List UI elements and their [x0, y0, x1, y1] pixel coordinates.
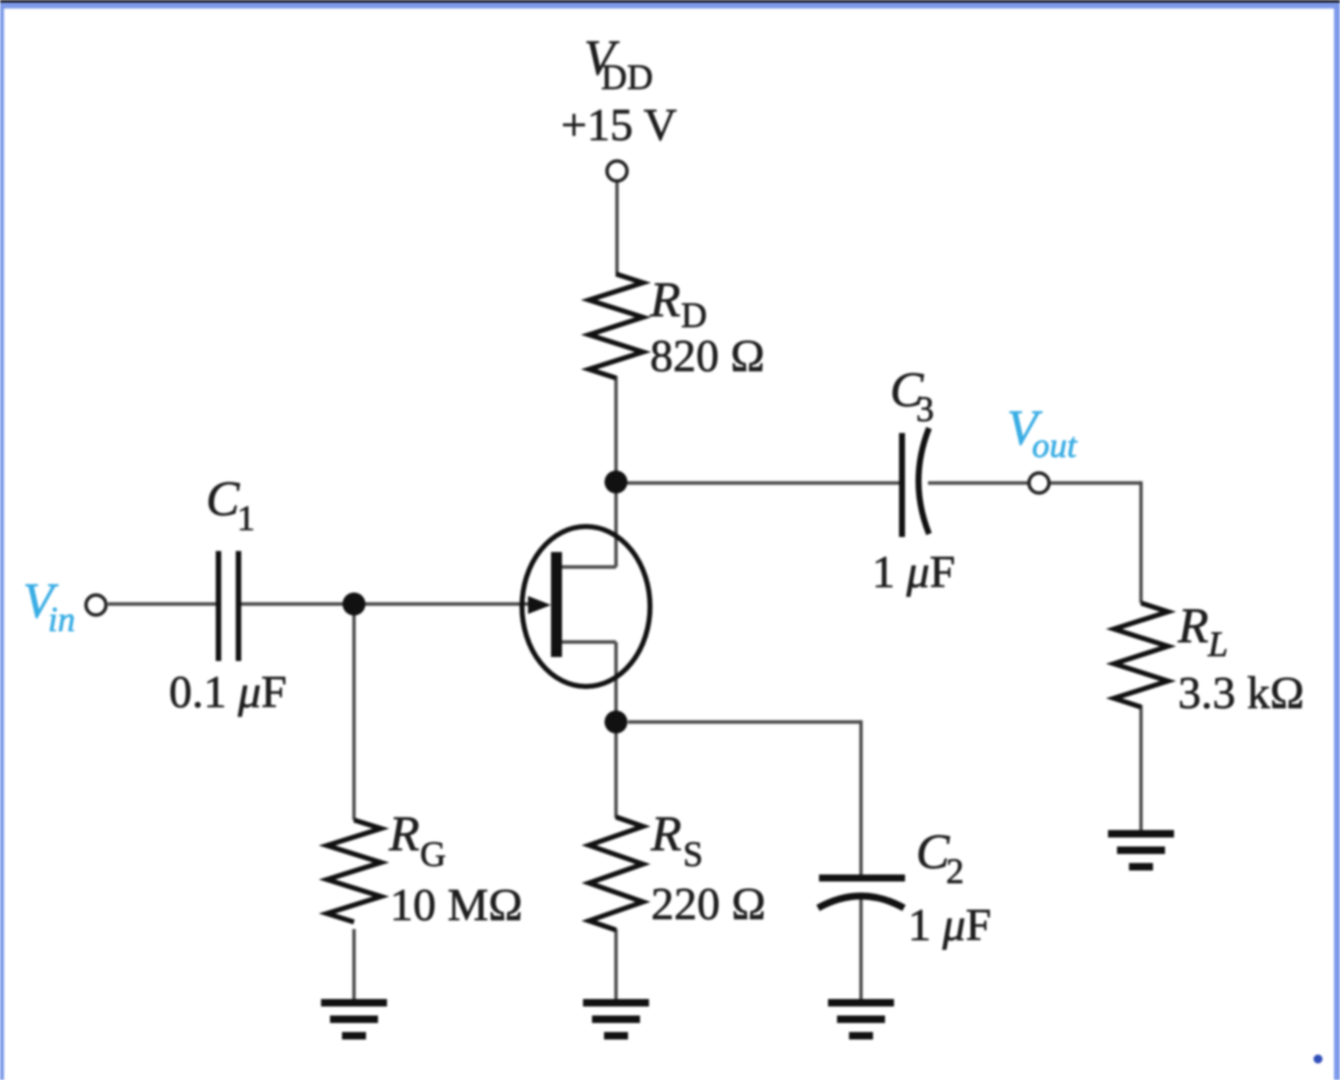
svg-text:10 MΩ: 10 MΩ: [390, 879, 523, 930]
svg-text:DD: DD: [601, 57, 653, 97]
svg-text:C: C: [206, 470, 240, 526]
svg-text:1 μF: 1 μF: [872, 546, 955, 597]
svg-text:R: R: [650, 805, 682, 861]
svg-text:1 μF: 1 μF: [908, 899, 991, 950]
svg-text:L: L: [1207, 624, 1228, 664]
svg-text:820 Ω: 820 Ω: [650, 330, 765, 381]
svg-text:C: C: [916, 823, 950, 879]
svg-text:220 Ω: 220 Ω: [651, 878, 766, 929]
svg-text:S: S: [683, 834, 703, 874]
svg-text:+15 V: +15 V: [561, 99, 677, 150]
svg-text:D: D: [681, 295, 707, 335]
svg-text:1: 1: [237, 498, 255, 538]
svg-text:2: 2: [946, 851, 964, 891]
svg-text:0.1 μF: 0.1 μF: [169, 666, 287, 717]
svg-text:in: in: [48, 600, 75, 639]
svg-text:R: R: [649, 271, 681, 327]
svg-text:3: 3: [916, 389, 934, 429]
svg-text:G: G: [420, 834, 446, 874]
svg-text:3.3 kΩ: 3.3 kΩ: [1178, 667, 1304, 718]
svg-text:R: R: [388, 805, 420, 861]
svg-text:R: R: [1177, 597, 1209, 653]
svg-text:out: out: [1032, 426, 1078, 465]
